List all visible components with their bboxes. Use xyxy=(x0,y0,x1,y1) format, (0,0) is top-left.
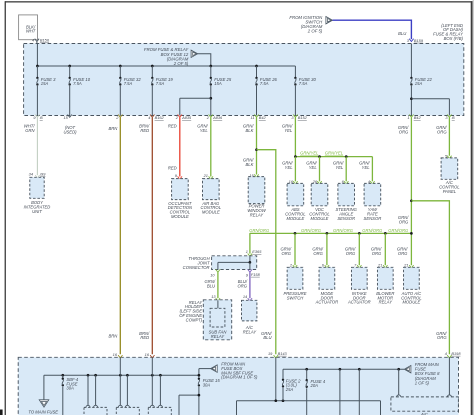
svg-text:CONNECTOR: CONNECTOR xyxy=(183,265,210,270)
svg-text:2 OF 5): 2 OF 5) xyxy=(307,29,323,34)
svg-text:ORG: ORG xyxy=(313,251,323,256)
svg-text:ORG: ORG xyxy=(237,283,247,288)
svg-text:ORG: ORG xyxy=(281,251,291,256)
svg-text:ORG: ORG xyxy=(399,129,409,134)
svg-text:1: 1 xyxy=(407,115,409,120)
svg-text:RED: RED xyxy=(168,165,177,170)
svg-text:1 OF 5): 1 OF 5) xyxy=(415,381,430,386)
svg-text:SENSOR: SENSOR xyxy=(364,216,382,221)
svg-text:MODULE: MODULE xyxy=(311,216,329,221)
svg-text:YEL: YEL xyxy=(335,165,344,170)
svg-text:YEL: YEL xyxy=(309,165,318,170)
svg-text:1: 1 xyxy=(246,249,248,254)
svg-text:USED): USED) xyxy=(63,129,77,134)
svg-text:7.5A: 7.5A xyxy=(124,81,133,86)
svg-text:B143: B143 xyxy=(278,351,288,356)
svg-text:RED: RED xyxy=(140,335,149,340)
svg-text:30A: 30A xyxy=(66,386,74,391)
svg-text:UNIT: UNIT xyxy=(32,209,42,214)
svg-text:15A: 15A xyxy=(41,81,49,86)
svg-text:MODULE: MODULE xyxy=(171,214,189,219)
svg-text:21: 21 xyxy=(377,262,382,267)
svg-text:B152: B152 xyxy=(298,115,308,120)
svg-text:ACTUATOR: ACTUATOR xyxy=(347,300,371,305)
svg-text:7.5A: 7.5A xyxy=(156,81,165,86)
svg-text:15A: 15A xyxy=(214,81,222,86)
svg-text:21: 21 xyxy=(403,262,408,267)
svg-text:PANEL: PANEL xyxy=(443,189,457,194)
svg-text:7.5A: 7.5A xyxy=(299,81,308,86)
svg-text:TO MAIN FUSE: TO MAIN FUSE xyxy=(28,409,58,414)
svg-text:E365: E365 xyxy=(252,249,262,254)
svg-text:GRN/ORG: GRN/ORG xyxy=(333,228,354,233)
svg-text:20A: 20A xyxy=(310,383,319,388)
svg-text:F158: F158 xyxy=(251,272,261,277)
svg-text:2 OF 5): 2 OF 5) xyxy=(173,61,189,66)
svg-text:ORG: ORG xyxy=(437,335,447,340)
svg-text:SENSOR: SENSOR xyxy=(337,216,355,221)
svg-text:A835: A835 xyxy=(181,115,192,120)
svg-text:GRN/ORG: GRN/ORG xyxy=(362,228,383,233)
svg-text:YEL: YEL xyxy=(362,165,371,170)
svg-text:11: 11 xyxy=(251,115,255,120)
svg-text:ORG: ORG xyxy=(398,251,408,256)
svg-text:ORG: ORG xyxy=(399,219,409,224)
svg-text:SWITCH: SWITCH xyxy=(287,295,304,300)
svg-text:B42: B42 xyxy=(259,115,267,120)
svg-text:ACTUATOR: ACTUATOR xyxy=(315,300,339,305)
svg-text:30A: 30A xyxy=(203,383,211,388)
svg-text:i99: i99 xyxy=(40,171,46,176)
svg-text:BRN: BRN xyxy=(108,333,118,338)
svg-text:GRN/YEL: GRN/YEL xyxy=(300,151,319,156)
svg-text:YEL: YEL xyxy=(285,165,294,170)
svg-text:MODULE: MODULE xyxy=(202,210,220,215)
svg-text:GRN/ORG: GRN/ORG xyxy=(388,228,409,233)
svg-text:7.5A: 7.5A xyxy=(73,81,82,86)
svg-text:WHT: WHT xyxy=(26,29,36,34)
svg-text:GRN/YEL: GRN/YEL xyxy=(325,151,344,156)
svg-text:BLK: BLK xyxy=(245,162,253,167)
svg-text:BLU: BLU xyxy=(263,335,272,340)
svg-text:B198: B198 xyxy=(451,351,461,356)
svg-text:(DIAGRAM 1 OF 5): (DIAGRAM 1 OF 5) xyxy=(221,375,258,380)
svg-text:COMPT): COMPT) xyxy=(186,317,203,322)
svg-text:ORG: ORG xyxy=(346,251,356,256)
svg-text:RELAY: RELAY xyxy=(211,334,226,339)
svg-text:A836: A836 xyxy=(212,115,223,120)
svg-text:B159: B159 xyxy=(414,38,424,43)
svg-text:ORG: ORG xyxy=(372,251,382,256)
svg-text:GRN: GRN xyxy=(25,128,35,133)
svg-text:BLU: BLU xyxy=(398,31,407,36)
svg-text:7.5A: 7.5A xyxy=(260,81,269,86)
svg-text:BLK: BLK xyxy=(245,128,253,133)
svg-text:MODULE: MODULE xyxy=(286,216,304,221)
svg-text:15A: 15A xyxy=(415,81,423,86)
svg-text:RELAY: RELAY xyxy=(250,213,265,218)
svg-text:A/C: A/C xyxy=(420,411,428,415)
svg-text:B156: B156 xyxy=(40,38,50,43)
svg-text:BLU: BLU xyxy=(207,283,216,288)
svg-text:RELAY: RELAY xyxy=(243,329,258,334)
svg-text:RED: RED xyxy=(168,124,177,129)
svg-text:ORG: ORG xyxy=(437,129,447,134)
svg-text:MODULE: MODULE xyxy=(402,300,420,305)
svg-text:21: 21 xyxy=(203,173,208,178)
svg-text:B162: B162 xyxy=(155,115,165,120)
svg-text:RELAY: RELAY xyxy=(379,300,394,305)
svg-text:GRN/ORG: GRN/ORG xyxy=(249,228,270,233)
svg-text:BRN: BRN xyxy=(108,126,118,131)
svg-text:GRN/ORG: GRN/ORG xyxy=(301,228,322,233)
svg-text:RED: RED xyxy=(140,128,149,133)
svg-text:25A: 25A xyxy=(285,387,294,392)
svg-text:B42: B42 xyxy=(414,115,422,120)
svg-text:YEL: YEL xyxy=(200,128,209,133)
svg-text:YEL: YEL xyxy=(284,128,293,133)
svg-text:BOX (F/B): BOX (F/B) xyxy=(444,36,464,41)
